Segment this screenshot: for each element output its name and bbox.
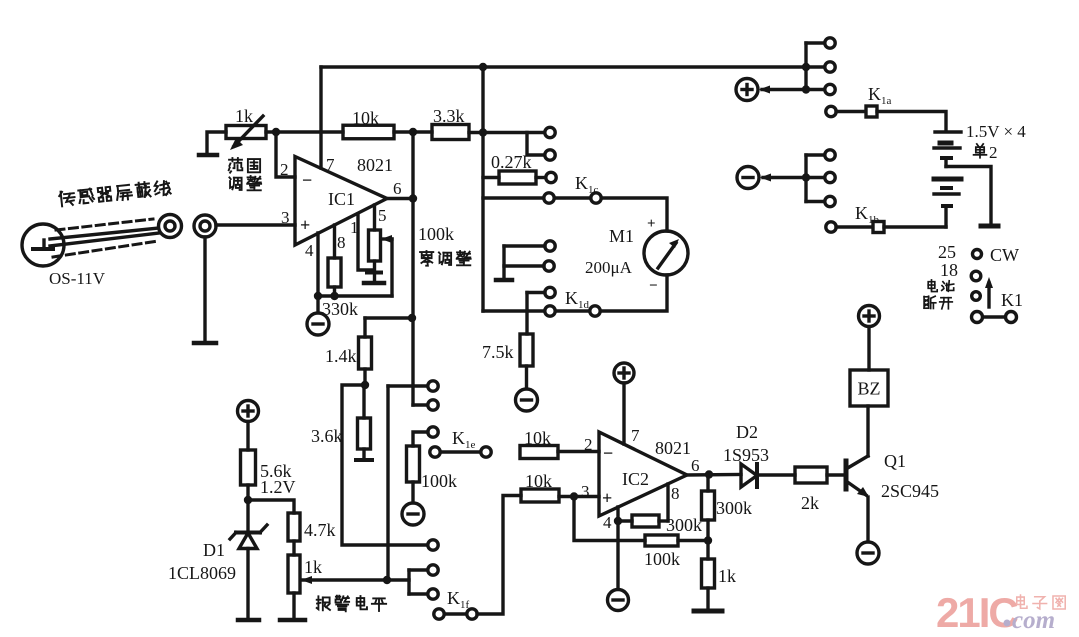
label 断开 xyxy=(924,296,936,308)
wire pin7 xyxy=(622,383,625,444)
label 传感器屏蔽线 xyxy=(59,180,171,207)
resistor 10k (IC2 pin3) xyxy=(521,489,559,502)
wire zero-adj to contact y405 xyxy=(413,403,428,406)
wire D2 to 2k xyxy=(757,473,795,476)
svg-text:+: + xyxy=(300,215,310,235)
contact circle y594 xyxy=(428,589,438,599)
1k pot ground xyxy=(280,593,305,620)
supply minus (Q1 emitter) xyxy=(857,542,879,564)
wire contact to 100k meas resistor xyxy=(413,432,428,446)
junction at zero-adj line xyxy=(408,314,416,322)
svg-text:1k: 1k xyxy=(304,557,322,577)
svg-text:4: 4 xyxy=(603,513,612,532)
plus group branch bottom xyxy=(806,88,824,91)
svg-text:K1d: K1d xyxy=(565,288,590,311)
wire wiper down to rail xyxy=(390,239,393,296)
contact circle m-mid xyxy=(825,172,835,182)
diode D2 xyxy=(741,464,757,487)
contact circle y386 xyxy=(428,381,438,391)
junction pin6 xyxy=(409,194,417,202)
wire y386 to contact xyxy=(388,384,428,387)
wire meter loop top xyxy=(483,198,667,231)
svg-text:1: 1 xyxy=(350,218,359,237)
sensor cable shield dashed xyxy=(53,219,158,257)
svg-text:200μA: 200μA xyxy=(585,258,633,277)
svg-text:300k: 300k xyxy=(666,515,702,535)
wire alarm to contact bracket xyxy=(387,578,409,581)
junction rail x483 xyxy=(479,63,487,71)
svg-text:1.5V × 4: 1.5V × 4 xyxy=(966,122,1026,141)
rotary arrow xyxy=(985,277,993,307)
contact circle c xyxy=(546,172,556,182)
wire tap to ground xyxy=(946,167,991,225)
svg-text:8021: 8021 xyxy=(357,155,393,175)
supply plus (IC2 pin7) xyxy=(614,363,634,383)
offset pot ground stem xyxy=(373,261,376,283)
supply minus (IC2 pin4) xyxy=(608,590,629,611)
svg-text:7: 7 xyxy=(326,155,335,174)
svg-text:K1f: K1f xyxy=(447,588,470,611)
potentiometer 1k arrow xyxy=(230,116,263,150)
junction pin4 xyxy=(614,517,622,525)
resistor 300k feedback vertical xyxy=(702,475,715,541)
svg-text:+: + xyxy=(647,216,656,232)
svg-text:18: 18 xyxy=(940,260,958,280)
terminal jack left xyxy=(159,215,182,238)
wire K1b to battery xyxy=(884,225,946,228)
contact circle b xyxy=(545,150,555,160)
svg-text:2SC945: 2SC945 xyxy=(881,481,939,501)
svg-text:4.7k: 4.7k xyxy=(304,520,336,540)
junction ref node xyxy=(244,496,252,504)
wire BZ to plus xyxy=(867,327,870,370)
wire pot to node xyxy=(266,130,343,133)
meter M1 xyxy=(644,231,688,275)
supply plus (5.6k) xyxy=(238,401,259,422)
op-amp IC2 triangle xyxy=(599,432,687,516)
svg-text:BZ: BZ xyxy=(857,379,880,399)
minus branch bottom xyxy=(806,200,824,203)
svg-text:1k: 1k xyxy=(718,566,736,586)
junction 1.4k/3.6k xyxy=(361,381,369,389)
svg-text:5: 5 xyxy=(378,206,387,225)
watermark dot xyxy=(1004,620,1011,627)
svg-text:−: − xyxy=(649,278,658,294)
tap end bar xyxy=(981,224,998,229)
contact bracket xyxy=(407,570,410,594)
wire 5.6k to node xyxy=(246,485,249,500)
contact circle top xyxy=(825,38,835,48)
wire zero-adj to 1.4k branch xyxy=(365,316,413,319)
svg-text:6: 6 xyxy=(691,456,700,475)
svg-text:2: 2 xyxy=(989,143,998,162)
junction alarm node xyxy=(383,576,391,584)
svg-text:8: 8 xyxy=(337,233,346,252)
switch K1e contacts xyxy=(430,447,491,457)
wire 10k to pin3 xyxy=(559,495,599,498)
svg-text:0.27k: 0.27k xyxy=(491,152,532,172)
IC1 pin8 wire xyxy=(333,225,336,258)
wire alarm-level vertical x388 xyxy=(386,386,389,580)
offset pot body xyxy=(369,230,381,261)
bracket to contact y570 xyxy=(409,568,428,571)
zener D1 xyxy=(230,500,267,620)
IC1 pin5 wire xyxy=(373,205,376,230)
wire collector to BZ xyxy=(866,406,869,456)
wire jack to IC1 pin3 xyxy=(216,223,295,226)
plus group bus xyxy=(804,43,807,90)
wire 100k to node xyxy=(678,539,708,542)
junction output node xyxy=(705,470,713,478)
svg-text:OS-11V: OS-11V xyxy=(49,269,106,288)
label 报警电平 xyxy=(317,596,330,610)
svg-text:M1: M1 xyxy=(609,226,634,246)
bracket to contact y594 xyxy=(409,592,428,595)
supply plus (BZ) xyxy=(859,306,880,327)
resistor 100k feedback xyxy=(645,535,678,546)
contact circle a xyxy=(545,127,555,137)
wire IC1 pin6 output xyxy=(387,197,413,200)
supply minus (100k) xyxy=(402,503,424,525)
svg-text:CW: CW xyxy=(990,245,1019,265)
resistor 1.4k xyxy=(359,337,372,369)
position circle 1 xyxy=(973,250,982,259)
svg-text:1k: 1k xyxy=(235,106,253,126)
wire loop via x342 to contact xyxy=(342,385,428,545)
junction pin4 rail xyxy=(314,292,322,300)
position circle 2 xyxy=(971,271,981,281)
battery bottom stem xyxy=(943,206,951,227)
svg-text:7: 7 xyxy=(631,426,640,445)
junction pot/pin2 node xyxy=(272,128,280,136)
wire to 0.27k xyxy=(483,176,499,179)
ground at pot left xyxy=(199,153,217,158)
svg-text:3.6k: 3.6k xyxy=(311,426,343,446)
minus branch mid xyxy=(806,176,824,179)
switch K1a xyxy=(826,106,877,117)
IC1 pin1 wire xyxy=(358,214,373,270)
wiper arrow alarm level xyxy=(301,576,387,584)
wire K1f to IC2 pin3 10k xyxy=(477,496,521,615)
plus group branch top xyxy=(806,41,824,44)
svg-text:10k: 10k xyxy=(525,471,552,491)
junction plus branch xyxy=(802,85,810,93)
IC1 pin4 wire xyxy=(316,233,319,296)
wire plus to 5.6k xyxy=(246,422,249,451)
offset pot wiper arrow xyxy=(381,235,392,243)
svg-text:100k: 100k xyxy=(418,224,454,244)
middle contact pair feeding ground xyxy=(496,241,555,280)
resistor 300k pin4-pin8 xyxy=(618,515,668,527)
label 单2 xyxy=(974,143,998,162)
supply minus (330k) xyxy=(307,313,329,335)
battery BT1 plates xyxy=(934,132,961,148)
resistor 7.5k xyxy=(520,334,533,366)
resistor 330k vertical xyxy=(328,258,341,287)
switch K1c contacts xyxy=(544,193,601,203)
resistor 100k (to minus) xyxy=(407,446,420,482)
resistor 2k xyxy=(795,467,827,483)
svg-text:7.5k: 7.5k xyxy=(482,342,514,362)
resistor 3.6k with stem xyxy=(356,385,372,460)
watermark 电子网 xyxy=(1017,595,1027,608)
wire node to 4.7k xyxy=(248,500,294,513)
junction pin3 node xyxy=(570,492,578,500)
svg-text:K1e: K1e xyxy=(452,428,476,451)
svg-text:100k: 100k xyxy=(421,471,457,491)
wire 0.27k to contact xyxy=(536,176,546,179)
label 范围调整 xyxy=(229,158,243,173)
wire hysteresis left xyxy=(574,497,645,541)
wire 1.4k top stem xyxy=(363,318,366,337)
switch K1d contacts xyxy=(545,306,600,316)
wire IC2 output xyxy=(687,473,741,477)
contact circle m-bottom xyxy=(825,196,835,206)
potentiometer 1k body xyxy=(226,126,266,139)
resistor 1k pulldown xyxy=(694,541,722,612)
wire K1a to battery xyxy=(877,112,946,132)
battery mid tap xyxy=(942,158,951,167)
minus group bus xyxy=(804,155,807,202)
potentiometer 1k (alarm level) xyxy=(288,555,300,593)
sensor OS-11V body xyxy=(22,224,64,266)
resistor 4.7k xyxy=(288,513,300,541)
wire 330k bottom xyxy=(333,287,336,296)
svg-text:10k: 10k xyxy=(352,108,379,128)
supply minus group circle xyxy=(737,167,759,189)
arrow into plus xyxy=(759,86,806,94)
arrow into minus xyxy=(760,174,806,182)
supply plus group circle xyxy=(736,79,758,101)
svg-text:6: 6 xyxy=(393,179,402,198)
wire left column x483 xyxy=(481,67,484,311)
wire rail to minus xyxy=(316,296,319,313)
terminal jack right xyxy=(194,215,216,237)
svg-text:−: − xyxy=(603,443,613,463)
wire node down to IC1 pin2 xyxy=(276,132,295,177)
wire 1.4k bottom xyxy=(363,369,366,385)
supply minus (7.5k) xyxy=(516,389,538,411)
svg-text:1.4k: 1.4k xyxy=(325,346,357,366)
junction 10k/3.3k/pin6 xyxy=(409,128,417,136)
svg-text:K1: K1 xyxy=(1001,290,1023,310)
IC2 pin4 wire xyxy=(616,507,619,589)
switch K1b xyxy=(826,222,884,233)
wire 7.5k to minus xyxy=(525,366,528,389)
contact circle y432 xyxy=(428,427,438,437)
svg-text:21IC: 21IC xyxy=(936,589,1018,636)
K1 wiper contacts xyxy=(972,312,1017,323)
svg-text:2: 2 xyxy=(584,435,593,454)
junction 330k rail xyxy=(330,292,338,300)
wire V+ top rail xyxy=(321,65,806,68)
resistor 10k (IC2 pin2) xyxy=(520,446,558,459)
svg-text:com: com xyxy=(1012,607,1055,634)
10k feedback resistor R top xyxy=(343,125,394,139)
wire 10k to pin2 xyxy=(558,450,599,453)
svg-text:25: 25 xyxy=(938,242,956,262)
contact circle bottom xyxy=(825,84,835,94)
contact above K1d to 7.5k xyxy=(527,287,555,334)
svg-text:2k: 2k xyxy=(801,493,819,513)
wire jack down to ground xyxy=(203,237,206,341)
svg-text:IC2: IC2 xyxy=(622,469,649,489)
wire jog to second contact xyxy=(527,133,545,156)
svg-text:D1: D1 xyxy=(203,540,225,560)
junction rail end xyxy=(802,63,810,71)
wire bottom rail under IC1 xyxy=(318,294,392,297)
wire ground stub to pot 1k xyxy=(207,132,226,153)
ground under jack xyxy=(194,341,216,346)
svg-text:100k: 100k xyxy=(644,549,680,569)
position circle 3 xyxy=(972,292,981,301)
svg-text:10k: 10k xyxy=(524,428,551,448)
op-amp IC1 triangle xyxy=(295,157,387,246)
junction x483 row xyxy=(479,128,487,136)
wire 4.7k to 1k pot xyxy=(292,541,295,555)
contact circle y405 xyxy=(428,400,438,410)
svg-text:K1a: K1a xyxy=(868,84,892,107)
svg-text:4: 4 xyxy=(305,241,314,260)
svg-text:8: 8 xyxy=(671,484,680,503)
wire meter loop right/bottom xyxy=(483,275,667,311)
svg-text:+: + xyxy=(602,488,612,508)
sensor cable core wires xyxy=(50,228,159,246)
svg-text:IC1: IC1 xyxy=(328,189,355,209)
svg-text:3: 3 xyxy=(581,482,590,501)
wire 100k to minus xyxy=(411,482,414,503)
svg-text:8021: 8021 xyxy=(655,438,691,458)
minus branch top xyxy=(806,153,824,156)
wire zero-adjust vertical xyxy=(411,132,414,405)
svg-text:1CL8069: 1CL8069 xyxy=(168,563,236,583)
contact circle mid xyxy=(825,62,835,72)
resistor 0.27k xyxy=(499,171,536,184)
junction feedback node xyxy=(704,536,712,544)
wire 10k to 3.3k xyxy=(394,130,432,133)
contact circle m-top xyxy=(825,150,835,160)
resistor 3.3k xyxy=(432,125,469,140)
svg-text:K1c: K1c xyxy=(575,173,599,196)
svg-text:1.2V: 1.2V xyxy=(260,477,296,497)
svg-text:−: − xyxy=(302,170,312,190)
contact circle y570 xyxy=(428,565,438,575)
transistor Q1 xyxy=(846,456,869,497)
svg-text:2: 2 xyxy=(280,160,289,179)
svg-text:1S953: 1S953 xyxy=(723,445,769,465)
buzzer BZ xyxy=(850,370,888,406)
resistor 5.6k xyxy=(241,450,256,485)
svg-text:300k: 300k xyxy=(716,498,752,518)
offset pot ground bars xyxy=(364,273,384,284)
wire 2k to base xyxy=(827,473,844,476)
junction minus branch xyxy=(802,173,810,181)
battery BT2 plates xyxy=(934,179,961,194)
svg-text:3: 3 xyxy=(281,208,290,227)
plus group branch mid xyxy=(806,65,824,68)
svg-text:3.3k: 3.3k xyxy=(433,106,465,126)
wire IC1 pin7 from rail xyxy=(319,67,322,168)
switch K1f contacts xyxy=(434,609,477,619)
label 电池 xyxy=(928,280,937,292)
wire emitter to minus xyxy=(866,497,869,542)
svg-text:D2: D2 xyxy=(736,422,758,442)
IC2 pin8 wire xyxy=(666,484,669,521)
contact circle (x342 line) xyxy=(428,540,438,550)
svg-text:Q1: Q1 xyxy=(884,451,906,471)
wire 3.3k to range contacts xyxy=(469,131,545,134)
